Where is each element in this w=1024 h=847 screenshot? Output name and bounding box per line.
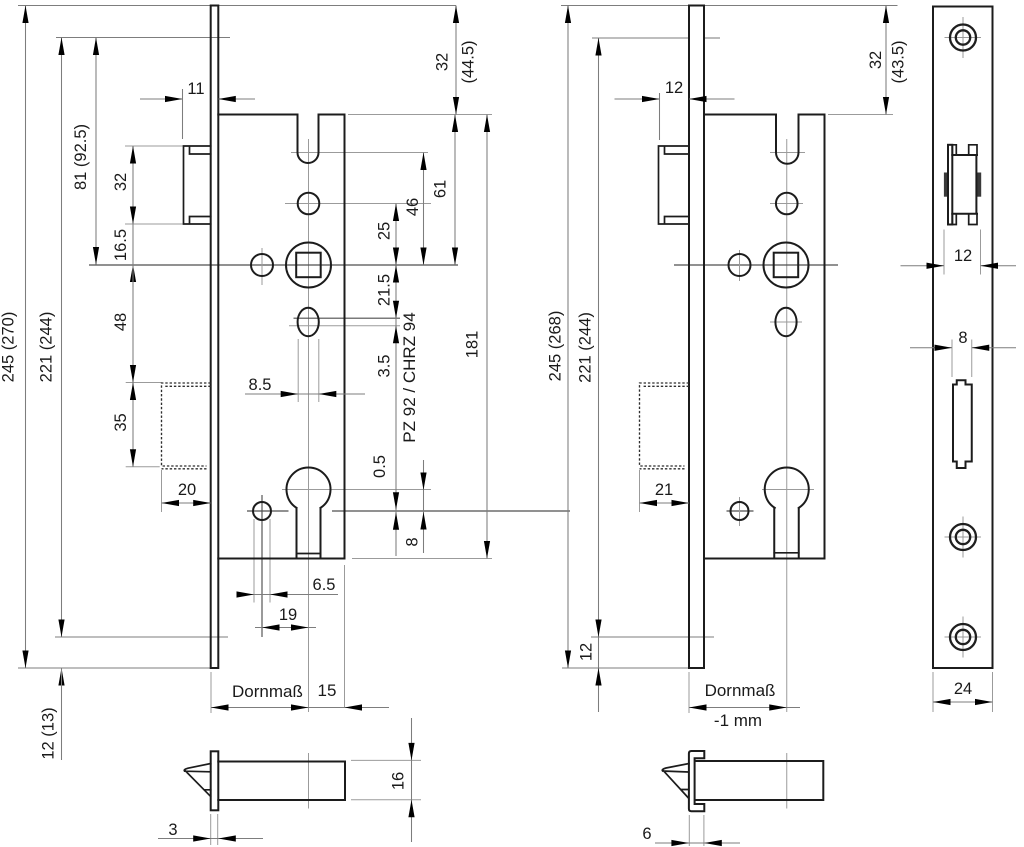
extension line y637 <box>55 636 228 638</box>
svg-text:181: 181 <box>464 331 482 359</box>
svg-text:3: 3 <box>168 821 177 839</box>
centerline small hole C2 lock2 <box>739 497 741 526</box>
cylinder hole lock2 <box>765 467 809 507</box>
hole above follower lock1 <box>298 193 320 215</box>
svg-text:21: 21 <box>655 481 673 499</box>
dim 221 (244) middle <box>598 38 600 637</box>
lock body lock1 outline <box>218 115 344 559</box>
oval hole lock2 <box>775 308 796 336</box>
small hole left of follower lock1 <box>251 254 273 276</box>
dim 16.5 <box>130 265 136 283</box>
upper box lock2 <box>659 146 690 224</box>
dim 24 <box>932 672 934 712</box>
svg-text:48: 48 <box>112 313 130 331</box>
extension line y38 middle <box>592 37 689 39</box>
centerline horizontal follower axis lock1 <box>89 264 458 266</box>
faceplate lock2 <box>689 6 704 669</box>
svg-text:81 (92.5): 81 (92.5) <box>72 124 90 190</box>
latch detail 1 body <box>218 762 345 801</box>
dim 6.5 <box>237 594 338 596</box>
latch detail 2 C-profile <box>689 751 704 811</box>
faceplate front view outline <box>933 7 993 669</box>
dim 21.5 <box>395 265 397 556</box>
dim 25 <box>395 204 397 266</box>
dim 6 latch2 <box>688 815 690 846</box>
svg-text:16: 16 <box>390 772 408 790</box>
svg-text:24: 24 <box>954 680 972 698</box>
top extension line y5.5 middle <box>561 5 689 7</box>
centerline small hole CL lock2 <box>739 250 741 281</box>
cylinder stem inner line lock1 <box>297 553 321 555</box>
svg-text:12: 12 <box>954 247 972 265</box>
dim 20 <box>161 470 163 512</box>
dim 221 (244) <box>61 38 63 638</box>
follower square lock2 <box>774 253 799 278</box>
oval hole lock1 <box>298 308 319 336</box>
svg-text:(44.5): (44.5) <box>460 40 478 83</box>
dim Dornmass 15 <box>210 672 212 713</box>
dim 61 <box>454 115 456 266</box>
screw hole middle <box>945 517 982 558</box>
svg-text:25: 25 <box>376 222 394 240</box>
svg-text:15: 15 <box>318 681 337 700</box>
centerline vertical latch2 detail <box>786 753 788 809</box>
latch front view <box>944 145 981 225</box>
latch side flange right <box>977 173 981 197</box>
small hole left of follower lock2 <box>729 254 751 276</box>
line through small hole C2 lock1 <box>247 510 570 512</box>
latch window <box>952 155 977 214</box>
svg-text:21.5: 21.5 <box>376 274 394 306</box>
svg-text:12 (13): 12 (13) <box>40 707 58 759</box>
extension line top edge right lock1 <box>348 114 492 116</box>
centerline cylinder lock2 <box>762 489 814 491</box>
dim 3.5 <box>393 326 399 344</box>
svg-text:Dornmaß: Dornmaß <box>705 681 776 700</box>
faceplate lock1 <box>211 6 219 669</box>
centerline vertical lock2 <box>786 139 788 712</box>
dim 21 <box>639 470 641 512</box>
extension line y668 middle <box>562 667 689 669</box>
cylinder stem inner line lock2 <box>774 552 799 554</box>
latch detail 1 wedge <box>184 764 210 797</box>
upper box lock1 <box>184 146 211 224</box>
extension line oval top lock1 <box>294 317 401 319</box>
extension line oval offset lock1 <box>289 325 400 327</box>
latch notch lock1 <box>298 115 319 164</box>
svg-text:3.5: 3.5 <box>376 355 394 378</box>
follower square lock1 <box>296 253 321 278</box>
dim 11 <box>182 89 184 139</box>
svg-text:61: 61 <box>432 180 450 198</box>
dim 48 <box>132 265 134 383</box>
svg-text:Dornmaß: Dornmaß <box>232 682 303 701</box>
follower hole lock2 <box>764 243 809 288</box>
svg-text:6: 6 <box>642 825 651 843</box>
extension line y668 faceplate bottom <box>18 667 211 669</box>
tangent extension lines hole C2 for dim 6.5 <box>253 519 255 603</box>
latch detail 1 plate <box>211 751 219 810</box>
centerline latch hole lock2 <box>770 203 803 205</box>
latch bottom caps <box>952 214 977 225</box>
dim 0.5 <box>393 492 399 510</box>
extension line notch bottom lock1 <box>291 152 428 154</box>
svg-text:245 (268): 245 (268) <box>547 311 565 382</box>
cylinder stem lock2 <box>774 509 799 559</box>
svg-text:19: 19 <box>279 606 297 624</box>
svg-text:245 (270): 245 (270) <box>0 312 18 383</box>
dim 35 <box>132 383 134 467</box>
extension lines left boxes <box>125 145 184 147</box>
svg-text:11: 11 <box>187 80 204 98</box>
dim 16 latch1 <box>351 759 421 761</box>
svg-text:221 (244): 221 (244) <box>577 312 595 383</box>
dim Dornmass -1 mm <box>688 672 690 713</box>
svg-text:20: 20 <box>178 481 196 499</box>
dim 32 (43.5) <box>885 6 887 115</box>
screw hole top <box>945 17 982 58</box>
dim 245 (268) <box>567 6 569 669</box>
svg-text:32: 32 <box>867 51 885 69</box>
dim 46 <box>423 153 425 266</box>
extension line small hole C2 vertical lock1 <box>261 495 263 637</box>
dim 12 latch width <box>943 230 945 275</box>
centerline horizontal follower axis lock2 <box>674 264 838 266</box>
dim 8 right of cylinder <box>423 460 425 553</box>
svg-text:8: 8 <box>404 537 422 546</box>
extension lines stem for dim 8.5 <box>297 339 299 402</box>
svg-text:12: 12 <box>665 79 683 97</box>
top extension line y5.5 <box>18 5 211 7</box>
screw hole bottom <box>945 617 982 658</box>
extension line bottom edge right lock1 <box>352 558 492 560</box>
lock body lock2 outline <box>704 115 825 559</box>
dim 19 <box>255 627 316 629</box>
svg-text:0.5: 0.5 <box>371 455 389 478</box>
svg-text:32: 32 <box>112 173 130 191</box>
dim 245 (270) <box>25 6 27 669</box>
latch notch lock2 <box>776 115 799 164</box>
svg-text:6.5: 6.5 <box>313 576 336 594</box>
centerline vertical lock1 <box>308 139 310 712</box>
centerline oval lock2 <box>770 321 802 323</box>
cylinder stem lock1 <box>297 509 321 559</box>
svg-text:221 (244): 221 (244) <box>38 312 56 383</box>
svg-text:-1 mm: -1 mm <box>714 711 762 730</box>
svg-text:8: 8 <box>958 329 967 347</box>
svg-text:12: 12 <box>578 643 596 661</box>
line through small hole C2 lock2 <box>727 510 754 512</box>
dim 12 top middle <box>659 93 661 140</box>
dim 3 latch1 <box>210 814 212 845</box>
small hole lower C2 lock2 <box>731 502 749 520</box>
svg-text:8.5: 8.5 <box>249 376 272 394</box>
centerline small hole CL lock1 <box>261 248 263 285</box>
dim 8 slot width <box>951 340 953 378</box>
dim 181 <box>486 115 488 559</box>
dim 32 upper left <box>132 146 134 287</box>
dim 12 (13) <box>58 668 64 686</box>
extension line top edge right lock2 <box>828 114 893 116</box>
svg-text:16.5: 16.5 <box>112 229 130 261</box>
latch side flange left <box>944 173 948 197</box>
svg-text:46: 46 <box>404 198 422 216</box>
deadbolt slot <box>953 380 972 468</box>
dim 8.5 <box>245 393 365 395</box>
centerline vertical latch1 detail <box>308 753 310 809</box>
centerline cylinder lock1 <box>282 489 431 491</box>
extension line y37.5 <box>56 37 230 39</box>
svg-text:32: 32 <box>434 53 452 71</box>
cylinder hole lock1 <box>287 467 331 507</box>
latch detail 2 wedge <box>662 764 689 798</box>
svg-text:(43.5): (43.5) <box>890 40 908 83</box>
svg-text:PZ 92 / CHRZ 94: PZ 92 / CHRZ 94 <box>400 312 419 442</box>
latch top caps <box>952 145 977 155</box>
dim 81 (92.5) <box>95 38 97 265</box>
latch left plate <box>948 145 952 225</box>
lower box lock1 dashed <box>162 383 211 469</box>
lower box lock2 dashed <box>640 383 690 469</box>
dim 32 (44.5) top right <box>455 6 457 115</box>
centerline latch hole lock1 <box>285 203 431 205</box>
small hole lower C2 lock1 <box>253 502 271 520</box>
svg-text:35: 35 <box>112 413 130 431</box>
latch detail 2 body <box>696 761 823 800</box>
extension line y637 middle <box>591 636 714 638</box>
hole above follower lock2 <box>776 193 798 215</box>
dim 12 bottom middle <box>598 637 600 712</box>
extension line notch bottom lock2 <box>770 152 805 154</box>
follower hole lock1 <box>286 243 331 288</box>
